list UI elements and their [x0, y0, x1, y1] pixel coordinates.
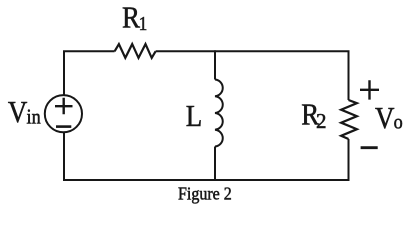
label Vo — [375, 101, 403, 135]
svg-text:2: 2 — [316, 109, 327, 133]
voltage source Vin circle — [45, 95, 82, 132]
output minus sign — [361, 146, 378, 149]
voltage source minus sign — [56, 125, 71, 128]
inductor L — [215, 80, 223, 147]
node middle-top junction wire — [214, 50, 216, 79]
label R2 — [301, 98, 320, 132]
output plus sign — [360, 80, 379, 99]
label L — [186, 99, 202, 133]
svg-text:L: L — [186, 99, 202, 133]
caption Figure 2 — [178, 184, 232, 204]
svg-text:Vin: Vin — [8, 95, 41, 129]
wire bottom-right (R2 bottom to bottom wire) — [348, 139, 350, 181]
svg-text:Vo: Vo — [375, 101, 403, 135]
svg-text:Figure 2: Figure 2 — [178, 184, 232, 204]
wire bottom — [63, 179, 350, 181]
resistor R1 — [115, 44, 156, 58]
wire middle-bottom (L to bottom wire) — [214, 147, 216, 182]
label R1 — [122, 1, 147, 36]
wire top-left (source top to R1 left) — [64, 51, 115, 96]
voltage source plus sign — [55, 98, 73, 115]
wire bottom-left (source bottom to bottom wire) — [63, 132, 65, 181]
resistor R2 — [341, 100, 357, 139]
label Vin — [8, 95, 41, 129]
wire top-right (R1 right to R2 top) — [156, 51, 349, 100]
svg-text:R1: R1 — [122, 1, 147, 36]
